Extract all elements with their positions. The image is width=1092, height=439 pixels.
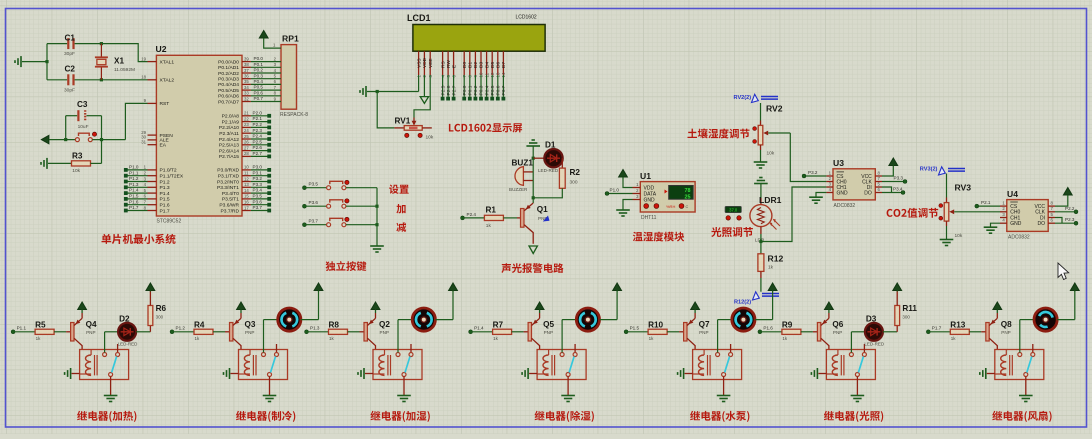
svg-text:P1.1/T2EX: P1.1/T2EX xyxy=(160,174,184,180)
svg-text:30pF: 30pF xyxy=(64,51,75,57)
svg-text:D6: D6 xyxy=(496,62,502,68)
svg-text:LED-RED: LED-RED xyxy=(864,341,885,346)
svg-text:Q6: Q6 xyxy=(832,320,843,329)
svg-text:P0.3/AD3: P0.3/AD3 xyxy=(218,77,239,83)
potentiometer RV1 xyxy=(395,117,434,141)
svg-text:LDR1: LDR1 xyxy=(759,195,782,205)
power terminal for motor M2 xyxy=(301,283,323,320)
U4 VCC power xyxy=(1055,188,1072,207)
svg-text:PNP: PNP xyxy=(833,330,842,335)
svg-text:P2.1: P2.1 xyxy=(981,200,991,205)
mouse cursor xyxy=(1058,263,1069,280)
wire ground bus to RV1 left xyxy=(377,92,404,128)
caption sound-light alarm xyxy=(501,263,563,273)
motor M5 xyxy=(718,308,755,353)
caption set/inc/dec labels xyxy=(389,185,409,232)
resistor R12 xyxy=(758,242,784,292)
svg-text:RESPACK-8: RESPACK-8 xyxy=(280,112,308,118)
resistor R9 xyxy=(782,320,818,341)
svg-text:C3: C3 xyxy=(77,100,88,109)
resistor R3 xyxy=(41,152,102,174)
svg-text:U3: U3 xyxy=(833,158,844,168)
svg-text:P0.7: P0.7 xyxy=(254,96,264,101)
svg-text:P2.4: P2.4 xyxy=(467,212,477,217)
svg-text:DO: DO xyxy=(1038,221,1046,227)
svg-text:P2.3/A11: P2.3/A11 xyxy=(219,131,239,137)
svg-text:ADC0832: ADC0832 xyxy=(1008,235,1030,241)
svg-text:P1.6: P1.6 xyxy=(129,199,139,204)
svg-text:P1.2: P1.2 xyxy=(129,176,139,181)
svg-text:P1.7: P1.7 xyxy=(160,208,170,214)
power terminal for Q5 xyxy=(535,302,544,313)
soil label RV2(2) cursor xyxy=(734,94,779,102)
U1 DATA terminal P1.0 xyxy=(605,188,633,196)
svg-text:10: 10 xyxy=(244,165,249,170)
svg-text:1k: 1k xyxy=(649,336,655,341)
svg-text:Q5: Q5 xyxy=(543,320,554,329)
relay RL1 coil ground xyxy=(65,368,80,379)
svg-text:D2: D2 xyxy=(119,315,130,324)
power terminal for Q8 xyxy=(993,302,1002,313)
U3 DI/DO tie to P3.4 xyxy=(882,187,905,195)
svg-text:BUZZER: BUZZER xyxy=(509,187,528,192)
svg-text:P1.2: P1.2 xyxy=(176,326,186,331)
svg-text:RP1: RP1 xyxy=(282,34,299,44)
svg-text:P0.2: P0.2 xyxy=(473,85,479,95)
svg-text:26: 26 xyxy=(244,140,249,145)
svg-text:R9: R9 xyxy=(782,320,793,329)
relay RL2 switch ground xyxy=(263,377,277,402)
svg-text:P3.5/T1: P3.5/T1 xyxy=(222,197,239,203)
svg-text:P0.5/AD5: P0.5/AD5 xyxy=(218,88,239,94)
U3 CLK terminal P3.3 xyxy=(882,176,907,184)
LCD1 display (LCD1602) xyxy=(407,13,545,51)
power terminal for Q4 xyxy=(78,302,87,313)
resistor R1 xyxy=(461,206,521,229)
svg-text:STC89C52: STC89C52 xyxy=(157,219,182,225)
svg-text:39: 39 xyxy=(244,56,249,61)
relay RL7 switch ground xyxy=(1019,377,1033,402)
U2 P1 port wires to terminals xyxy=(124,165,148,213)
relay RL6 coil ground xyxy=(811,368,826,379)
power terminal for R11 xyxy=(893,283,902,306)
svg-text:P3.2: P3.2 xyxy=(253,176,263,181)
svg-text:D4: D4 xyxy=(484,62,490,68)
motor M4 xyxy=(562,308,599,353)
U4 DI/DO tie to P2.3 xyxy=(1055,217,1078,225)
svg-text:RV2(2): RV2(2) xyxy=(734,95,752,101)
svg-text:P3.6: P3.6 xyxy=(309,200,319,205)
resistor R5 xyxy=(35,320,71,341)
capacitor C1 xyxy=(47,34,101,58)
svg-text:P0.7: P0.7 xyxy=(501,85,507,95)
inverted ground above LDR xyxy=(754,178,768,199)
push button K3 (P3.7) xyxy=(302,217,377,226)
svg-text:Q7: Q7 xyxy=(699,320,710,329)
svg-text:P2.4: P2.4 xyxy=(253,134,263,139)
U2 P3 port wires to terminals xyxy=(251,165,271,213)
wire reset to RST pin xyxy=(125,103,147,139)
svg-text:Q3: Q3 xyxy=(245,320,256,329)
svg-text:P1.6: P1.6 xyxy=(763,326,773,331)
svg-text:300: 300 xyxy=(902,315,910,320)
svg-text:300: 300 xyxy=(156,315,164,320)
svg-text:P2.6: P2.6 xyxy=(253,145,263,150)
relay RL5 switch ground xyxy=(717,377,731,402)
svg-text:U2: U2 xyxy=(156,44,167,54)
svg-text:P3.7/RD: P3.7/RD xyxy=(221,208,240,214)
relay RL6 switch ground xyxy=(851,377,865,402)
LDR bottom junction wires xyxy=(759,187,826,243)
relay RL4 switch xyxy=(560,344,577,377)
wire C1 to XTAL1 xyxy=(100,42,148,81)
svg-text:1k: 1k xyxy=(768,265,774,271)
svg-text:16: 16 xyxy=(244,200,249,205)
caption temp-humidity module xyxy=(633,232,684,242)
LCD VEE wire to RV1 wiper xyxy=(412,75,431,126)
svg-text:RV3: RV3 xyxy=(955,183,972,193)
svg-text:19: 19 xyxy=(141,56,146,61)
power terminal for motor M4 xyxy=(600,283,622,320)
svg-text:P1.6: P1.6 xyxy=(160,203,170,209)
relay RL1 coil xyxy=(80,350,98,376)
svg-text:P1.3: P1.3 xyxy=(160,185,170,191)
svg-text:P3.7: P3.7 xyxy=(309,219,319,224)
node P1.4 terminal xyxy=(469,326,493,334)
ADC U3 (ADC0832) xyxy=(826,158,882,209)
U4 CLK terminal P2.2 xyxy=(1055,206,1078,214)
svg-text:BUZ1: BUZ1 xyxy=(512,158,534,167)
power terminal for motor M7 xyxy=(1057,283,1079,320)
svg-text:U1: U1 xyxy=(640,171,651,181)
relay RL2 coil xyxy=(239,350,257,376)
push button K2 (P3.6) xyxy=(302,199,377,208)
relay RL6 coil xyxy=(826,350,844,376)
svg-text:P2.5: P2.5 xyxy=(253,139,263,144)
svg-text:PNP: PNP xyxy=(245,330,254,335)
LED D1 xyxy=(532,141,563,173)
svg-text:P0.5: P0.5 xyxy=(254,85,264,90)
LED D2 xyxy=(105,315,139,353)
relay RL5 box xyxy=(693,350,742,380)
svg-text:R3: R3 xyxy=(72,152,83,161)
svg-text:32: 32 xyxy=(244,96,249,101)
U4 GND ground xyxy=(984,223,1000,233)
relay RL7 coil ground xyxy=(980,368,995,379)
caption light adjust xyxy=(711,227,753,237)
svg-text:DO: DO xyxy=(864,190,872,196)
svg-text:RS: RS xyxy=(440,61,446,68)
svg-text:P2.4/A12: P2.4/A12 xyxy=(219,137,239,143)
svg-text:P1.4: P1.4 xyxy=(129,188,139,193)
relay RL3 switch ground xyxy=(397,377,411,402)
transistor Q6 xyxy=(817,313,843,350)
svg-text:P0.4: P0.4 xyxy=(254,79,264,84)
svg-text:P1.3: P1.3 xyxy=(310,326,320,331)
reset button xyxy=(75,132,125,142)
svg-text:11: 11 xyxy=(244,171,249,176)
resistor R13 xyxy=(950,320,986,341)
svg-text:PNP: PNP xyxy=(380,330,389,335)
power terminal for motor M5 xyxy=(755,283,777,320)
caption MCU minimum system xyxy=(102,234,176,244)
svg-text:Q2: Q2 xyxy=(379,320,390,329)
node P1.3 terminal xyxy=(305,326,329,334)
svg-text:D5: D5 xyxy=(490,62,496,68)
svg-text:P0.4: P0.4 xyxy=(484,85,490,95)
relay RL4 box xyxy=(537,350,586,380)
potentiometer RV2 xyxy=(753,103,791,162)
caption CO2 adjust xyxy=(887,208,939,218)
svg-text:C1: C1 xyxy=(65,34,76,43)
svg-text:24: 24 xyxy=(244,128,249,133)
svg-text:P2.7/A15: P2.7/A15 xyxy=(219,154,239,160)
power terminal for Q7 xyxy=(691,302,700,313)
svg-text:10k: 10k xyxy=(426,135,434,141)
relay RL5 switch xyxy=(716,344,733,377)
relay RL1 box xyxy=(80,350,129,380)
svg-text:P3.1: P3.1 xyxy=(253,170,263,175)
svg-text:D0: D0 xyxy=(462,62,468,68)
svg-text:P3.2/INT0: P3.2/INT0 xyxy=(217,179,239,185)
svg-text:R6: R6 xyxy=(156,304,167,313)
svg-text:D7: D7 xyxy=(501,62,507,68)
svg-text:P2.7: P2.7 xyxy=(451,85,457,95)
power terminal for motor M3 xyxy=(435,283,457,320)
relay RL6 box xyxy=(826,350,875,380)
svg-text:P0.0/AD0: P0.0/AD0 xyxy=(218,59,239,65)
relay RL3 coil ground xyxy=(358,368,373,379)
resistor R2 xyxy=(533,158,580,198)
svg-text:C2: C2 xyxy=(65,65,76,74)
relay RL1 switch xyxy=(103,344,120,377)
svg-text:10k: 10k xyxy=(767,151,775,157)
motor M3 xyxy=(398,308,435,353)
transistor Q1 xyxy=(521,196,550,244)
svg-text:P1.5: P1.5 xyxy=(129,194,139,199)
U1 GND ground xyxy=(616,200,632,217)
svg-text:78: 78 xyxy=(685,188,691,194)
svg-text:P1.5: P1.5 xyxy=(160,197,170,203)
svg-text:RV3(2): RV3(2) xyxy=(920,167,938,173)
node P1.5 terminal xyxy=(624,326,648,334)
svg-text:27: 27 xyxy=(244,145,249,150)
svg-text:P3.3: P3.3 xyxy=(253,182,263,187)
svg-text:P0.6: P0.6 xyxy=(254,90,264,95)
svg-text:P0.1/AD1: P0.1/AD1 xyxy=(218,65,239,71)
node P1.2 terminal xyxy=(170,326,194,334)
resistor R8 xyxy=(329,320,365,341)
relay RL3 switch xyxy=(396,344,413,377)
svg-text:D1: D1 xyxy=(545,141,556,150)
svg-text:Q1: Q1 xyxy=(537,205,548,214)
U2 P2 port wires to terminals xyxy=(251,110,271,158)
svg-text:GND: GND xyxy=(837,190,849,196)
svg-text:P2.0: P2.0 xyxy=(253,110,263,115)
resistor R11 xyxy=(883,304,918,332)
svg-text:P3.6: P3.6 xyxy=(253,199,263,204)
svg-text:R13: R13 xyxy=(950,320,965,329)
svg-text:P2.7: P2.7 xyxy=(253,151,263,156)
node P1.7 terminal xyxy=(926,326,950,334)
svg-text:P1.7: P1.7 xyxy=(932,326,942,331)
power terminal for R6 xyxy=(146,283,155,306)
svg-text:GND: GND xyxy=(1010,221,1022,227)
svg-text:P3.4: P3.4 xyxy=(253,188,263,193)
svg-text:P1.0: P1.0 xyxy=(129,165,139,170)
svg-text:VEE: VEE xyxy=(428,58,434,68)
svg-text:P2.1: P2.1 xyxy=(253,116,263,121)
LCD VDD power xyxy=(420,75,428,103)
transistor Q4 xyxy=(71,313,97,350)
svg-text:P1.5: P1.5 xyxy=(630,326,640,331)
svg-text:LED-RED: LED-RED xyxy=(538,168,559,173)
wire RV2 wiper to U3 CH0 xyxy=(790,133,826,182)
svg-text:P3.5: P3.5 xyxy=(309,182,319,187)
svg-text:13: 13 xyxy=(244,182,249,187)
relay RL2 box xyxy=(239,350,288,380)
svg-text:Q8: Q8 xyxy=(1001,320,1012,329)
caption soil humidity adjust xyxy=(688,128,750,138)
caption relay 3 xyxy=(371,411,430,422)
node P1.1 terminal xyxy=(11,326,35,334)
power terminal for Q6 xyxy=(825,302,834,313)
power terminal for Q2 xyxy=(371,302,380,313)
LED D3 xyxy=(851,315,885,353)
svg-text:P0.6: P0.6 xyxy=(496,85,502,95)
relay RL4 switch ground xyxy=(561,377,575,402)
svg-text:P0.2: P0.2 xyxy=(254,68,264,73)
svg-text:P3.5: P3.5 xyxy=(253,194,263,199)
svg-text:EA: EA xyxy=(160,143,167,149)
reset input arrow terminal xyxy=(41,135,75,143)
transistor Q7 xyxy=(684,313,710,350)
svg-text:P0.2/AD2: P0.2/AD2 xyxy=(218,71,239,77)
svg-text:P0.3: P0.3 xyxy=(479,85,485,95)
svg-text:P2.3: P2.3 xyxy=(1065,217,1075,222)
svg-text:R10: R10 xyxy=(648,320,663,329)
relay RL7 box xyxy=(995,350,1044,380)
relay RL7 switch xyxy=(1018,344,1035,377)
svg-text:1k: 1k xyxy=(782,336,788,341)
relay RL4 coil ground xyxy=(522,368,537,379)
svg-text:LCD1: LCD1 xyxy=(407,13,431,23)
light level indicator xyxy=(725,206,741,220)
svg-text:Q4: Q4 xyxy=(86,320,97,329)
svg-text:P2.2: P2.2 xyxy=(1065,206,1075,211)
relay RL2 coil ground xyxy=(224,368,239,379)
svg-text:%RH: %RH xyxy=(666,204,675,209)
svg-text:R5: R5 xyxy=(35,320,46,329)
svg-text:31: 31 xyxy=(141,140,146,145)
svg-text:P3.0/RXD: P3.0/RXD xyxy=(217,168,239,174)
wire RV3 wiper to U4 CH0 xyxy=(954,211,1000,213)
svg-text:P1.0: P1.0 xyxy=(610,188,620,193)
caption relay 2 xyxy=(236,411,295,422)
node P1.6 terminal xyxy=(758,326,782,334)
svg-text:33: 33 xyxy=(244,91,249,96)
RV3 ground xyxy=(940,240,954,246)
svg-text:P0.1: P0.1 xyxy=(254,62,264,67)
U1 VDD power wire xyxy=(619,170,633,188)
caption relay 4 xyxy=(535,411,594,422)
crystal X1 xyxy=(95,44,135,80)
svg-text:23: 23 xyxy=(244,122,249,127)
svg-text:P3.4/T0: P3.4/T0 xyxy=(222,191,239,197)
motor M2 xyxy=(264,308,301,353)
U3 GND ground xyxy=(809,193,826,204)
capacitor C3 xyxy=(66,100,102,130)
svg-text:30pF: 30pF xyxy=(64,88,75,94)
capacitor C2 xyxy=(47,65,148,94)
svg-text:1k: 1k xyxy=(36,336,42,341)
svg-text:PNP: PNP xyxy=(86,330,95,335)
svg-text:12: 12 xyxy=(244,176,249,181)
svg-text:PNP: PNP xyxy=(699,330,708,335)
svg-text:P0.7/AD7: P0.7/AD7 xyxy=(218,99,239,105)
svg-text:15: 15 xyxy=(244,194,249,199)
svg-text:R12(2): R12(2) xyxy=(734,300,751,306)
svg-text:R12: R12 xyxy=(768,254,784,264)
svg-text:36: 36 xyxy=(244,74,249,79)
power terminal for Q3 xyxy=(237,302,246,313)
svg-text:ADC0832: ADC0832 xyxy=(834,203,856,209)
transistor Q8 xyxy=(986,313,1012,350)
relay RL4 coil xyxy=(537,350,555,376)
svg-text:37: 37 xyxy=(244,68,249,73)
U4 CS terminal P2.1 xyxy=(975,200,1000,208)
svg-text:25: 25 xyxy=(244,134,249,139)
svg-text:XTAL1: XTAL1 xyxy=(160,59,175,65)
wire C1/C2 left bus xyxy=(45,44,48,80)
svg-text:P3.7: P3.7 xyxy=(253,205,263,210)
resistor R10 xyxy=(648,320,684,341)
svg-text:R8: R8 xyxy=(329,320,340,329)
svg-text:300: 300 xyxy=(570,180,578,186)
svg-text:11.0592M: 11.0592M xyxy=(114,67,135,73)
ground near C1/C2 xyxy=(15,56,47,67)
svg-text:21: 21 xyxy=(244,111,249,116)
RV2 ground xyxy=(754,162,768,168)
svg-text:10uF: 10uF xyxy=(78,124,89,130)
caption relay 5 xyxy=(690,411,749,422)
svg-text:10k: 10k xyxy=(72,168,80,174)
svg-text:P1.3: P1.3 xyxy=(129,182,139,187)
LCD data/net wires xyxy=(440,75,507,101)
svg-text:R11: R11 xyxy=(902,304,917,313)
svg-text:P3.1/TXD: P3.1/TXD xyxy=(218,174,240,180)
LCD VSS ground wire xyxy=(360,75,419,97)
caption relay 7 xyxy=(992,411,1051,422)
svg-text:P0.6/AD6: P0.6/AD6 xyxy=(218,94,239,100)
label R12(2) cursor xyxy=(734,292,779,306)
svg-text:U4: U4 xyxy=(1007,189,1018,199)
svg-text:1k: 1k xyxy=(329,336,335,341)
svg-text:VSS: VSS xyxy=(416,58,422,68)
resistor pack RP1 xyxy=(251,31,308,119)
svg-text:1k: 1k xyxy=(195,336,201,341)
svg-text:P0.0: P0.0 xyxy=(254,56,264,61)
relay RL7 coil xyxy=(995,350,1013,376)
svg-text:25: 25 xyxy=(685,195,691,201)
caption independent keys xyxy=(326,261,367,271)
relay RL6 switch xyxy=(849,344,866,377)
DHT11 module U1 xyxy=(633,171,696,221)
caption relay 6 xyxy=(824,411,883,422)
svg-text:RV2: RV2 xyxy=(766,104,783,114)
relay RL3 box xyxy=(373,350,422,380)
wire C3 sides xyxy=(64,116,103,164)
